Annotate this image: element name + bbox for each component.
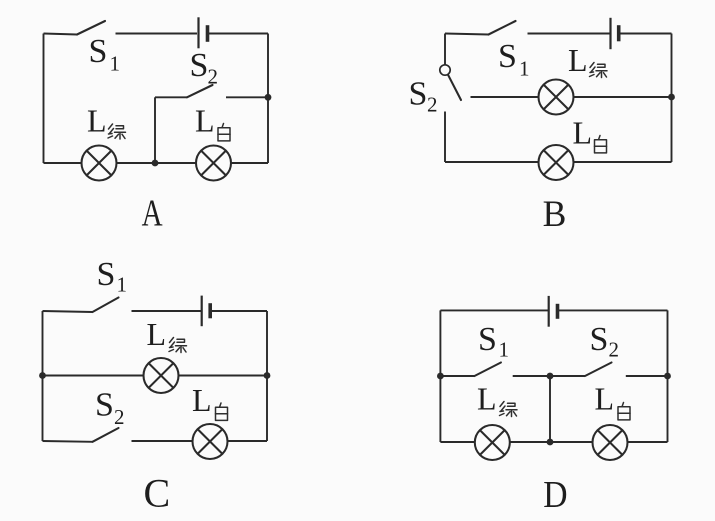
wire A S2 branch left xyxy=(155,96,187,98)
wire A top-right segment xyxy=(209,33,269,35)
wire A S2 branch right xyxy=(226,96,268,98)
svg-text:L: L xyxy=(147,316,167,352)
svg-text:L: L xyxy=(595,381,615,417)
label L白 (D) xyxy=(595,381,631,420)
svg-text:C: C xyxy=(144,471,171,516)
svg-text:2: 2 xyxy=(208,65,219,89)
wire C right vertical xyxy=(266,311,268,441)
node D middle-right junction dot xyxy=(664,373,671,380)
wire A right vertical xyxy=(267,34,269,164)
wire D middle segment 4 xyxy=(626,375,668,377)
svg-text:S: S xyxy=(89,33,108,70)
lamp L白 (C) xyxy=(193,424,228,459)
lamp L绿 (C) xyxy=(144,358,179,393)
letter D xyxy=(543,474,567,516)
svg-text:S: S xyxy=(97,256,116,293)
lamp L绿 (A) xyxy=(82,146,117,181)
switch S1 (D) blade xyxy=(475,363,501,377)
wire C bottom mid segment xyxy=(132,440,193,442)
label L白 (B) xyxy=(573,115,607,153)
svg-text:D: D xyxy=(543,474,567,516)
label S2 (A) xyxy=(190,47,219,89)
node D middle-center junction dot xyxy=(547,373,554,380)
battery (A) xyxy=(199,17,208,48)
wire A top-left segment xyxy=(44,34,78,35)
wire B top mid segment xyxy=(528,33,610,35)
wire B top-left segment xyxy=(445,34,489,35)
wire D right vertical xyxy=(667,310,669,442)
svg-text:L: L xyxy=(192,382,212,418)
wire B left vertical upper xyxy=(444,34,446,65)
switch S2 (C) blade xyxy=(93,428,119,442)
wire D top-left segment xyxy=(440,309,548,311)
wire B right vertical xyxy=(671,34,673,163)
node C left junction dot xyxy=(39,372,46,379)
lamp L绿 (D) xyxy=(475,425,510,460)
svg-text:1: 1 xyxy=(110,52,121,76)
lamp L白 (A) xyxy=(196,146,231,181)
node B junction dot xyxy=(668,94,675,101)
letter B xyxy=(543,194,567,235)
wire C middle segment left xyxy=(43,375,144,377)
label L白 (C) xyxy=(192,382,228,420)
wire D middle segment 2 xyxy=(513,375,550,377)
switch S2 (A) blade xyxy=(187,85,213,97)
wire D bottom segment 1 xyxy=(440,441,475,443)
switch S2 (B) blade xyxy=(448,75,461,100)
svg-text:L: L xyxy=(477,381,497,417)
wire C bottom-left segment xyxy=(43,440,93,443)
svg-text:A: A xyxy=(142,193,163,235)
lamp L绿 (B) xyxy=(539,80,574,115)
wire A bottom mid segment xyxy=(117,162,197,164)
svg-text:1: 1 xyxy=(117,273,128,297)
label L绿 (A) xyxy=(87,103,126,140)
wire D top-right segment xyxy=(559,309,668,311)
label S1 (B) xyxy=(498,38,530,81)
svg-text:S: S xyxy=(95,387,114,424)
battery (D) xyxy=(549,296,558,327)
lamp L白 (B) xyxy=(539,145,574,180)
battery (C) xyxy=(202,296,211,327)
wire A middle vertical xyxy=(154,97,156,163)
svg-text:S: S xyxy=(478,321,497,358)
svg-text:S: S xyxy=(190,47,209,84)
svg-text:S: S xyxy=(409,76,428,113)
wire D middle segment 3 xyxy=(550,375,585,377)
label L绿 (D) xyxy=(477,381,517,417)
wire D bottom segment 2 xyxy=(510,441,593,443)
node A right junction dot xyxy=(265,94,272,101)
node C right junction dot xyxy=(264,372,271,379)
svg-text:1: 1 xyxy=(519,57,530,81)
wire D bottom segment 3 xyxy=(628,441,668,443)
svg-text:2: 2 xyxy=(114,405,125,429)
wire A left vertical xyxy=(43,34,45,164)
svg-text:B: B xyxy=(543,194,567,235)
svg-text:L: L xyxy=(87,103,107,139)
switch S2 (D) blade xyxy=(585,363,612,377)
wire A top mid segment xyxy=(116,33,198,35)
switch S1 (C) blade xyxy=(93,298,119,313)
svg-text:2: 2 xyxy=(609,338,620,362)
wire B top-right segment xyxy=(620,33,672,35)
label L绿 (B) xyxy=(568,42,607,78)
svg-text:S: S xyxy=(498,38,517,75)
wire D middle segment 1 xyxy=(440,375,474,377)
wire A bottom-left segment xyxy=(44,162,82,164)
wire C top-right segment xyxy=(211,310,267,312)
label S1 (C) xyxy=(97,256,128,297)
svg-text:S: S xyxy=(590,321,609,358)
switch S1 (A) blade xyxy=(77,21,105,35)
label S2 (B) xyxy=(409,76,438,117)
wire C bottom-right segment xyxy=(228,440,268,442)
label S2 (D) xyxy=(590,321,620,362)
wire C middle segment right xyxy=(179,375,268,377)
svg-text:L: L xyxy=(573,115,593,151)
svg-text:1: 1 xyxy=(499,338,510,362)
svg-text:2: 2 xyxy=(427,93,438,117)
lamp L白 (D) xyxy=(593,425,628,460)
letter C xyxy=(144,471,171,516)
label S2 (C) xyxy=(95,387,125,429)
wire C top-left segment xyxy=(43,311,93,312)
wire B middle segment left xyxy=(471,96,539,98)
wire D center vertical xyxy=(549,376,551,442)
switch S1 (B) blade xyxy=(489,21,516,35)
wire B left vertical lower xyxy=(444,112,446,163)
switch S2 (B) pivot circle xyxy=(440,65,450,75)
wire A bottom-right segment xyxy=(231,162,268,164)
wire C top mid segment xyxy=(132,310,202,312)
wire B bottom-right segment xyxy=(574,161,672,163)
label S1 (A) xyxy=(89,33,121,76)
node D middle-left junction dot xyxy=(437,373,444,380)
label L白 (A) xyxy=(195,103,230,141)
battery (B) xyxy=(611,18,619,49)
wire B middle segment right xyxy=(574,96,672,98)
node D bottom junction dot xyxy=(547,439,554,446)
wire D left vertical xyxy=(439,310,441,442)
node A bottom junction dot xyxy=(152,160,159,167)
svg-text:L: L xyxy=(568,42,588,78)
label S1 (D) xyxy=(478,321,509,362)
letter A xyxy=(142,193,163,235)
label L绿 (C) xyxy=(147,316,187,353)
wire C left vertical xyxy=(42,311,44,441)
svg-text:L: L xyxy=(195,103,215,139)
wire B bottom-left segment xyxy=(445,161,539,163)
